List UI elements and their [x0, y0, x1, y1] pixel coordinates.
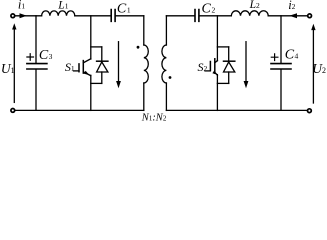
plus sign C4 [271, 54, 278, 61]
svg-text:i2: i2 [288, 0, 295, 12]
transformer primary wire lower [143, 83, 145, 110]
terminal top-left [11, 14, 15, 18]
inductor L1 [42, 11, 75, 16]
wire S1 bottom bar [91, 82, 102, 84]
svg-text:L2: L2 [249, 0, 260, 11]
terminal bottom-right [308, 109, 312, 113]
svg-text:L1: L1 [57, 0, 68, 12]
transistor S2 emitter arrow [212, 71, 217, 75]
transistor S1 body bar [82, 61, 84, 74]
wire diode D1 top lead [101, 47, 103, 61]
transformer secondary winding N2 [162, 45, 167, 83]
wire S1 branch lower [90, 75, 92, 110]
svg-text:U2: U2 [312, 61, 326, 76]
svg-text:N1:N2: N1:N2 [141, 113, 167, 123]
capacitor C3 [27, 64, 47, 69]
polarity dot secondary [169, 76, 172, 79]
svg-text:C3: C3 [39, 48, 53, 63]
voltage arrow U1 [13, 29, 15, 103]
capacitor C4 [271, 64, 291, 69]
transformer secondary wire upper [165, 16, 167, 45]
wire C4 branch [280, 16, 282, 111]
wire S1 top bar [91, 46, 102, 48]
wire C3 branch [35, 16, 37, 111]
transformer primary winding N1 [144, 45, 149, 83]
polarity dot primary [137, 46, 140, 49]
svg-text:S1: S1 [65, 60, 75, 74]
svg-text:C1: C1 [117, 2, 131, 17]
wire S2 branch upper [216, 16, 218, 61]
diode D2 cathode bar [224, 60, 235, 62]
svg-text:U1: U1 [1, 61, 15, 76]
indicator arrow cell 2 [245, 42, 247, 81]
transistor S1 gate bar [78, 64, 80, 72]
transistor S2 emitter line [215, 72, 218, 75]
wire diode D1 bottom lead [101, 72, 103, 83]
wire diode D2 bottom lead [228, 72, 230, 83]
svg-text:C2: C2 [202, 2, 216, 17]
transistor S2 gate lead [205, 70, 210, 72]
transistor S2 gate bar [209, 62, 211, 71]
transistor S1 collector line [84, 59, 91, 63]
wire diode D2 top lead [228, 47, 230, 61]
transistor S1 emitter arrow [84, 71, 90, 75]
wire top rail right [166, 15, 307, 17]
transistor S2 collector line [215, 61, 218, 63]
terminal bottom-left [11, 109, 15, 113]
wire bottom rail left [15, 109, 144, 111]
capacitor C1 [111, 10, 115, 22]
transformer primary wire upper [143, 16, 145, 45]
wire S2 bottom bar [217, 82, 228, 84]
diode D1 triangle [97, 62, 108, 72]
transistor S2 body bar [214, 59, 216, 73]
transistor S1 gate lead [74, 70, 79, 72]
wire S2 top bar [217, 46, 228, 48]
voltage arrow U2 [312, 29, 314, 103]
wire S2 branch lower [216, 75, 218, 111]
plus sign C3 [27, 54, 34, 61]
transistor S1 emitter line [83, 72, 90, 76]
indicator arrow cell 1 [118, 42, 120, 81]
wire top rail left [15, 15, 144, 17]
inductor L2 [231, 11, 268, 16]
svg-text:C4: C4 [285, 48, 299, 63]
svg-text:i1: i1 [18, 0, 25, 12]
capacitor C2 [195, 10, 199, 22]
current arrow i1 [20, 13, 27, 18]
wire bottom rail right [166, 109, 307, 111]
svg-text:S2: S2 [198, 60, 208, 74]
diode D2 triangle [224, 62, 235, 72]
terminal top-right [308, 14, 312, 18]
transformer secondary wire lower [165, 83, 167, 110]
current arrow i2 [289, 13, 297, 18]
wire S1 branch upper [90, 16, 92, 59]
diode D1 cathode bar [97, 60, 108, 62]
